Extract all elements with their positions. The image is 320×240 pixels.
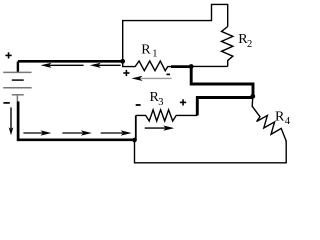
wire R3 left lead down to node D: [135, 115, 137, 140]
svg-text:4: 4: [285, 116, 291, 127]
resistor R2: [222, 27, 233, 67]
svg-text:R: R: [141, 42, 151, 57]
resistor R3: [136, 110, 198, 121]
battery - label: [3, 102, 9, 104]
wire R1 right to node B (thick overlay): [171, 65, 191, 68]
wire bottom return loop (node D to R4 bottom): [135, 140, 287, 163]
polarity - (R3 left): [136, 104, 141, 106]
current arrow (left side, down): [9, 107, 14, 135]
battery + label: [5, 52, 11, 58]
polarity + (R1 left): [123, 70, 129, 76]
current arrow (top wire, left, outer): [41, 63, 84, 68]
wire node C left to R3 right lead (thick): [197, 98, 253, 116]
wire node A up and over to R2 top: [123, 4, 228, 61]
polarity - (R1 right): [167, 73, 171, 75]
wire node B down-right to node C (thick): [191, 67, 253, 97]
polarity + (R3 right): [180, 99, 186, 105]
svg-text:R: R: [275, 109, 285, 124]
resistor R1: [123, 61, 172, 71]
svg-text:2: 2: [247, 39, 252, 50]
svg-text:1: 1: [152, 49, 157, 60]
wire battery positive to node A (top thick wire): [18, 60, 123, 63]
node A junction dot: [120, 59, 125, 64]
current arrow (bottom wire 1): [23, 130, 51, 135]
current arrow (bottom wire 2): [62, 130, 92, 135]
node D junction dot: [132, 138, 137, 143]
wire R2 bottom to node B: [191, 65, 228, 67]
resistor R4 (diagonal): [252, 96, 286, 141]
current arrow under R1 (left, gray tail): [132, 76, 172, 81]
wire battery negative down (left side): [18, 101, 134, 139]
node C junction dot: [250, 94, 255, 99]
svg-text:3: 3: [158, 97, 163, 108]
current arrow (top wire, left, inner): [90, 63, 121, 68]
current arrow under R3 (right): [145, 126, 175, 131]
node B junction dot: [189, 64, 194, 69]
battery B1: [3, 62, 31, 102]
current arrow (bottom wire 3): [101, 130, 132, 135]
